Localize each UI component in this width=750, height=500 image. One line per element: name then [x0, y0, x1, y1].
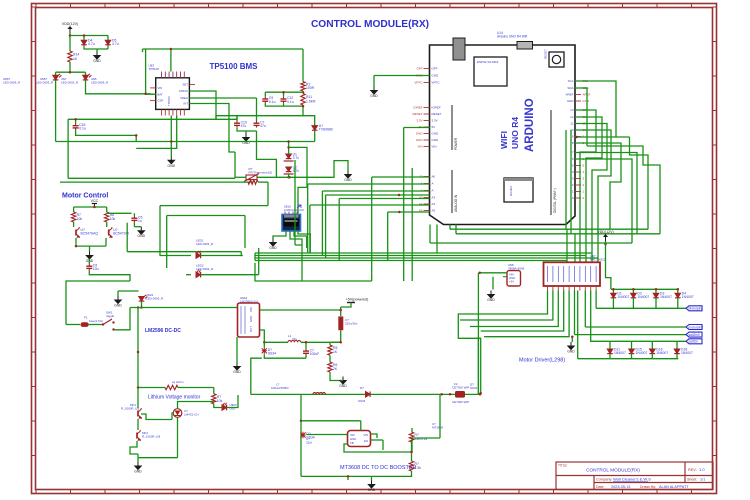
svg-text:R_1000P_U$: R_1000P_U$ [142, 435, 160, 439]
svg-text:SET: SET [183, 83, 189, 87]
wire [676, 341, 678, 349]
wire [244, 216, 246, 249]
junction [288, 176, 291, 179]
ground [115, 296, 121, 304]
svg-text:0.1u: 0.1u [269, 100, 276, 104]
LED U$? [222, 403, 227, 411]
ESP32-S3 module [474, 57, 507, 86]
svg-text:RESET: RESET [432, 112, 442, 116]
capacitor C10 47u [234, 121, 240, 128]
wire [56, 71, 86, 73]
svg-text:ATRCK: ATRCK [179, 89, 188, 93]
wire [89, 324, 103, 326]
junction [479, 393, 482, 396]
ground [243, 134, 249, 142]
wire [612, 289, 614, 293]
diode D15 1N4007 [629, 349, 635, 354]
wire [127, 251, 241, 253]
wire [302, 49, 304, 82]
wire [630, 137, 649, 229]
svg-text:RA4M1: RA4M1 [509, 186, 513, 196]
wire [189, 97, 256, 99]
capacitor C6 10u [86, 264, 92, 271]
RA4M1 MCU [504, 178, 533, 202]
svg-text:DIGITAL (PWM~): DIGITAL (PWM~) [553, 188, 557, 213]
svg-text:REV:: REV: [688, 468, 697, 472]
node motorpin2 [686, 325, 702, 330]
svg-text:1K: 1K [333, 350, 338, 354]
wire [294, 231, 307, 248]
wire [68, 118, 237, 120]
svg-text:WIFI: WIFI [499, 131, 509, 149]
wire [305, 356, 307, 359]
junction [449, 393, 452, 396]
svg-text:CE7920 WiP: CE7920 WiP [452, 400, 469, 404]
wire [609, 341, 611, 349]
wire [329, 355, 331, 362]
svg-text:Motorpin1: Motorpin1 [689, 307, 704, 311]
wire [456, 233, 660, 235]
wire [138, 387, 165, 389]
wire [477, 273, 479, 395]
wire [579, 243, 581, 262]
wire [263, 342, 265, 347]
svg-text:GND: GND [416, 132, 424, 136]
wire [305, 342, 307, 349]
resistor R8 10k [105, 212, 109, 222]
wire [310, 204, 430, 206]
svg-text:0.1u: 0.1u [79, 127, 86, 131]
resistor R2 100R [301, 82, 305, 91]
wire [632, 289, 634, 293]
diode D5 [105, 40, 111, 45]
svg-text:TP5100 BMS: TP5100 BMS [210, 62, 259, 71]
wire [388, 211, 430, 213]
svg-text:1N4007: 1N4007 [660, 295, 672, 299]
wire [134, 226, 141, 228]
diode D4 [81, 40, 87, 45]
svg-text:GND: GND [138, 234, 146, 238]
battery cell U2 3.7V [286, 167, 292, 172]
svg-text:10k: 10k [217, 399, 223, 403]
svg-text:R?(Thermistor10): R?(Thermistor10) [249, 171, 273, 175]
wire [301, 245, 303, 281]
wire [651, 341, 653, 349]
arduino pins [424, 69, 582, 211]
wire [66, 281, 130, 325]
svg-text:LM2596 DC-DC: LM2596 DC-DC [145, 328, 181, 334]
wire [141, 414, 172, 420]
wire [330, 341, 341, 343]
svg-text:1N4007: 1N4007 [636, 351, 648, 355]
wire [255, 252, 592, 254]
wire [106, 222, 108, 227]
ground [340, 377, 346, 385]
wire [340, 330, 342, 342]
svg-text:Company:: Company: [596, 478, 612, 482]
wire [484, 291, 569, 337]
wire [470, 291, 558, 327]
junction [440, 393, 443, 396]
wire [481, 291, 564, 332]
capacitor C7 47u [254, 121, 260, 128]
svg-text:LED 0603_R: LED 0603_R [61, 81, 79, 85]
diode D2 1N4007 [631, 293, 637, 298]
wire [677, 298, 679, 308]
svg-text:VIN: VIN [417, 145, 422, 149]
wire [273, 231, 286, 239]
svg-text:GND: GND [432, 132, 440, 136]
wire [611, 288, 678, 290]
wire [295, 244, 302, 246]
wire [403, 128, 405, 282]
wire [308, 183, 430, 185]
svg-text:EN: EN [364, 439, 368, 443]
svg-text:MT3608 DC TO DC BOOSTER: MT3608 DC TO DC BOOSTER [340, 465, 417, 471]
svg-text:A3: A3 [432, 196, 436, 200]
svg-text:Lithium Voltage monitor: Lithium Voltage monitor [148, 395, 201, 401]
svg-text:GND: GND [114, 304, 122, 308]
svg-text:VIN: VIN [432, 145, 437, 149]
capacitor C12 0.1u [281, 97, 287, 104]
wire [382, 440, 384, 450]
junction [339, 309, 342, 312]
junction [69, 71, 72, 74]
wire [289, 147, 307, 214]
wire [330, 372, 341, 381]
svg-text:GND: GND [93, 59, 101, 63]
wire [178, 402, 214, 409]
svg-text:SS34: SS34 [358, 399, 366, 403]
wire [371, 273, 373, 281]
wire [68, 177, 235, 179]
svg-text:VREG: VREG [180, 96, 188, 100]
resistor R5 [328, 345, 332, 355]
wire [677, 289, 679, 293]
wire [133, 213, 135, 216]
resistor R? [248, 180, 258, 184]
svg-text:4.7u: 4.7u [112, 42, 119, 46]
node sail2in0 [686, 332, 702, 337]
wire [260, 330, 265, 342]
svg-text:1N4007: 1N4007 [656, 351, 668, 355]
svg-text:GND: GND [233, 370, 241, 374]
wire [189, 91, 216, 119]
svg-text:4.7u: 4.7u [88, 42, 95, 46]
junction [478, 272, 481, 275]
svg-text:1u: 1u [138, 219, 142, 223]
wire [257, 176, 289, 178]
wire [404, 127, 430, 129]
wire [73, 222, 75, 227]
wire [76, 130, 137, 141]
wire [255, 257, 598, 259]
wire [159, 206, 161, 252]
wire [178, 387, 214, 389]
wire [294, 160, 296, 245]
wire [283, 103, 285, 106]
svg-text:LM431-CN: LM431-CN [184, 413, 199, 417]
wire [595, 291, 597, 309]
junction [347, 475, 350, 478]
junction [302, 105, 305, 108]
svg-text:GND: GND [134, 470, 142, 474]
svg-text:3.7v: 3.7v [293, 156, 300, 160]
svg-text:7.5k: 7.5k [415, 466, 422, 470]
wire [303, 116, 315, 126]
wire [137, 308, 139, 388]
node sail1in [686, 339, 702, 344]
svg-text:UNO R4: UNO R4 [510, 117, 520, 149]
wire [339, 198, 429, 200]
svg-text:F1: F1 [84, 316, 88, 320]
wire [597, 258, 599, 262]
wire [88, 259, 90, 264]
ground [234, 363, 240, 371]
svg-text:RESET: RESET [412, 112, 422, 116]
wire [631, 341, 633, 349]
svg-text:SS34: SS34 [268, 351, 276, 355]
svg-text:2023-05-13: 2023-05-13 [611, 485, 630, 489]
wire [166, 216, 168, 269]
ground [135, 462, 141, 470]
wire [575, 81, 616, 137]
supply VDD(12V) [597, 230, 613, 241]
svg-text:ANALOG IN: ANALOG IN [454, 194, 458, 212]
svg-text:CSP: CSP [158, 99, 164, 103]
wire [449, 225, 451, 230]
svg-text:1N4007: 1N4007 [614, 351, 626, 355]
svg-text:1N4007: 1N4007 [681, 351, 693, 355]
wire [66, 324, 80, 326]
wire [341, 380, 343, 382]
wire [85, 72, 87, 75]
ground [488, 291, 494, 299]
wire [107, 46, 109, 49]
wire [591, 253, 593, 262]
wire [260, 309, 341, 311]
resistor R? 10k [212, 394, 216, 404]
junction [571, 335, 574, 338]
wire [143, 48, 304, 50]
junction [74, 118, 77, 121]
svg-text:1K: 1K [73, 57, 78, 61]
wire [571, 337, 573, 342]
svg-text:0.1u: 0.1u [287, 100, 294, 104]
wire [167, 215, 245, 217]
wire [234, 152, 236, 178]
wire [575, 143, 621, 229]
wire [136, 116, 177, 149]
svg-text:ARDUINO: ARDUINO [524, 98, 536, 152]
svg-text:POWER: POWER [454, 137, 458, 150]
svg-text:VCC: VCC [91, 199, 99, 203]
wire [325, 195, 327, 258]
wire [374, 75, 430, 77]
wire [236, 356, 238, 363]
wire [374, 471, 412, 476]
battery cell U1 3.7V [286, 154, 292, 159]
wire [322, 190, 429, 192]
wire [201, 274, 259, 276]
svg-text:LED 0603_R: LED 0603_R [91, 81, 109, 85]
svg-text:GND: GND [168, 164, 176, 168]
svg-text:47u: 47u [260, 124, 266, 128]
wire [411, 452, 413, 461]
ground [86, 252, 92, 260]
wire [74, 206, 107, 208]
op-amp U14 Arduino UNO R4 WiFi board outline [430, 45, 576, 225]
wire [86, 80, 151, 94]
wire [137, 388, 139, 409]
wire [587, 146, 660, 234]
svg-text:GND: GND [368, 488, 376, 492]
wire [133, 223, 135, 227]
wire [214, 404, 222, 408]
svg-text:10k: 10k [110, 217, 116, 221]
ground [368, 481, 374, 489]
junction [83, 34, 86, 37]
svg-text:IOREF: IOREF [432, 106, 441, 110]
junction [135, 134, 138, 137]
wire [142, 49, 144, 52]
wire [89, 271, 130, 281]
wire [371, 439, 384, 441]
junction [170, 48, 173, 51]
wire [570, 130, 572, 234]
svg-text:TP5100: TP5100 [167, 96, 171, 106]
ground [345, 171, 351, 179]
svg-text:VIN: VIN [249, 307, 253, 312]
svg-text:A: A [432, 182, 434, 186]
wire [574, 291, 576, 335]
title block [556, 462, 713, 490]
svg-text:+5V: +5V [509, 280, 514, 284]
svg-text:12: 12 [570, 115, 574, 119]
wire [96, 49, 98, 52]
junction [339, 341, 342, 344]
wire [429, 225, 431, 244]
svg-text:HW_C4322: HW_C4322 [590, 258, 606, 262]
wire [301, 420, 361, 422]
wire [256, 98, 258, 121]
wire [612, 298, 614, 308]
svg-text:LED 0603_R: LED 0603_R [146, 297, 164, 301]
wire [170, 142, 172, 157]
svg-text:GND: GND [487, 298, 495, 302]
diode D1 1N4007 [611, 293, 617, 298]
wire [56, 141, 315, 143]
wire [371, 476, 373, 480]
wire [130, 441, 138, 454]
junction [655, 288, 658, 291]
svg-text:1N4007: 1N4007 [637, 295, 649, 299]
svg-text:TVS0680: TVS0680 [319, 128, 333, 132]
wire [578, 358, 679, 360]
svg-text:sq 2ohm: sq 2ohm [172, 380, 184, 384]
diode D4 1N4007 [675, 293, 681, 298]
wire [412, 437, 440, 439]
wire [106, 207, 108, 212]
svg-text:10u: 10u [93, 267, 99, 271]
wire [298, 231, 310, 253]
wire [593, 340, 687, 342]
junction [575, 136, 578, 139]
svg-text:BAT: BAT [158, 92, 164, 96]
svg-text:1/1: 1/1 [700, 478, 705, 482]
wire [267, 182, 269, 206]
svg-text:47u: 47u [241, 124, 247, 128]
capacitor C? 100uF [303, 349, 309, 356]
junction [137, 351, 140, 354]
wire [480, 272, 507, 274]
svg-text:VIN: VIN [363, 433, 368, 437]
wire [347, 476, 349, 480]
wire [258, 248, 260, 275]
svg-text:13: 13 [570, 108, 574, 112]
junction [302, 91, 305, 94]
wire [465, 393, 481, 395]
wire [237, 128, 257, 131]
svg-text:Arduino UNO R4 Wifi: Arduino UNO R4 Wifi [497, 35, 527, 39]
wire [115, 308, 131, 330]
svg-text:VRTC: VRTC [432, 81, 441, 85]
wire [227, 395, 238, 408]
junction [137, 386, 140, 389]
junction [137, 306, 140, 309]
svg-text:GND: GND [432, 74, 440, 78]
wire [75, 119, 77, 123]
wire [288, 142, 290, 155]
power jack [517, 42, 533, 50]
capacitor C9 0.1u [262, 97, 268, 104]
junction [93, 206, 96, 209]
wire [60, 181, 253, 183]
wire [290, 231, 302, 245]
wire [264, 354, 306, 358]
svg-text:A: A [432, 189, 434, 193]
svg-text:Motor Driver(L298): Motor Driver(L298) [519, 358, 565, 364]
svg-text:TITLE:: TITLE: [558, 464, 568, 468]
wire [117, 291, 119, 296]
wire [575, 159, 632, 243]
LED U$7 LED 0603_R [53, 74, 62, 80]
wire [245, 131, 247, 134]
wire [651, 354, 653, 359]
ground [138, 227, 144, 235]
wire [411, 428, 413, 432]
wire [455, 225, 457, 234]
wire [76, 238, 106, 246]
svg-text:220u/16v: 220u/16v [345, 322, 358, 326]
capacitor C15 0.1u [73, 124, 79, 131]
wire [107, 212, 132, 214]
svg-text:INT: INT [183, 102, 188, 106]
wire [606, 241, 611, 289]
svg-text:AREF: AREF [565, 93, 573, 97]
wire [236, 337, 238, 356]
wire [584, 291, 586, 328]
wire [360, 421, 362, 431]
svg-text:GND: GND [567, 99, 575, 103]
svg-text:22uf: 22uf [306, 441, 312, 445]
wire [265, 103, 303, 106]
wire [172, 413, 174, 420]
wire [632, 298, 634, 308]
junction [398, 194, 401, 197]
svg-text:A4: A4 [432, 202, 436, 206]
wire [118, 290, 139, 292]
